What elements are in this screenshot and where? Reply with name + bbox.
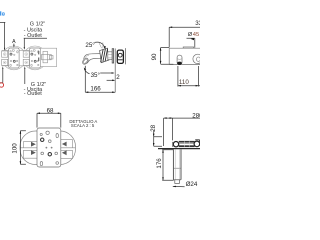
leader to bottom label [24,66,25,69]
union nut (tilted, hatched) [100,48,109,62]
drop pipe [173,149,181,179]
svg-text:SCALA 2 : 5: SCALA 2 : 5 [71,123,95,128]
valve body bars [179,141,195,143]
wall face line [114,48,116,92]
label G 1/2 outlet (top) [24,21,46,39]
plate 2 holes [31,49,39,66]
centerline above nut [102,42,104,48]
port left top [2,51,8,57]
svg-text:2: 2 [116,74,120,81]
right wing slots [61,140,76,159]
svg-text:35°: 35° [91,72,101,79]
svg-text:166: 166 [90,86,101,93]
svg-text:25°: 25° [85,42,95,49]
body bottom edge [2,65,41,67]
blue logo fragment top-left [0,11,5,15]
port middle bottom [23,59,29,65]
dim Ø24 [173,185,185,187]
escutcheon disc [112,49,113,63]
label G 1/2 outlet (bottom) [24,82,47,97]
port middle top [23,51,29,57]
detail plate holes [40,131,58,166]
dim 90 [160,48,162,64]
svg-text:Ø24: Ø24 [186,181,198,188]
leader arrows at bottom ports [2,66,3,69]
in-wall bracket [117,50,123,63]
detail body stadium [20,131,76,165]
dim 330 top [169,27,200,47]
right nut [194,141,200,147]
svg-text:100: 100 [11,143,18,154]
dim 166 [84,66,86,92]
tube through wall [108,52,112,60]
svg-text:- Outlet: - Outlet [24,91,43,97]
dim 2 [107,79,115,81]
valve nut [173,142,178,147]
svg-text:330: 330 [195,20,200,27]
dark connectors right of plate 2 [38,51,39,55]
body band fill [2,50,41,65]
left wing slots [20,142,37,159]
port left bottom [2,59,8,65]
dim 280 top [164,117,200,119]
elbow cross fitting [42,51,53,62]
leader: cut label top-left [0,22,5,49]
boss circle 1 [2,46,26,70]
svg-text:68: 68 [47,107,54,114]
detail plate [37,128,61,167]
dim 110 [178,66,199,87]
plate outline [169,48,200,64]
knob 2 (round) [193,54,202,63]
elbow box [40,48,56,66]
dim 176 [162,150,164,181]
spout tip ellipse [81,57,89,65]
svg-text:110: 110 [179,79,189,86]
svg-text:280: 280 [192,112,200,119]
knob 1 (lever) [177,55,182,65]
dim 68 [37,112,61,114]
body top edge [2,49,41,51]
plate 1 holes [10,49,18,66]
plate 2 [30,48,41,68]
plate 1 [9,48,19,68]
wall base line [158,148,200,150]
svg-text:176: 176 [156,158,163,169]
red circle marker [0,83,4,87]
pipe nipple [175,180,180,184]
svg-text:90: 90 [151,53,158,60]
spout body [84,54,100,59]
dim 100 [19,131,21,165]
svg-text:45: 45 [193,32,199,38]
boss circle 2 [23,46,47,70]
back line [124,48,126,64]
